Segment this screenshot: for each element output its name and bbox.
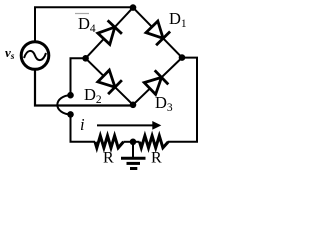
wire branch left-bottom (86, 58, 133, 105)
svg-text:D3: D3 (155, 93, 173, 114)
current arrow i (97, 121, 161, 130)
junction bridge right (179, 54, 186, 61)
junction hop bottom (67, 111, 74, 118)
junction bridge left (82, 55, 89, 62)
junction bridge bottom (130, 102, 137, 109)
wire hop over source wire (57, 95, 70, 114)
wire right resistor to right corner (168, 58, 197, 142)
wire left resistor to center node (124, 141, 140, 143)
svg-text:D4: D4 (78, 14, 96, 35)
ground (121, 142, 146, 169)
resistor R left (95, 136, 124, 148)
svg-text:i: i (80, 115, 85, 134)
svg-text:R: R (103, 150, 114, 167)
wire left corner to hop (71, 58, 86, 95)
svg-text:R: R (151, 150, 162, 167)
diode D4 (98, 20, 122, 44)
diode D3 (144, 70, 168, 94)
junction hop top (67, 92, 74, 99)
resistor R right (140, 136, 169, 148)
ac source vs (21, 42, 49, 70)
junction bridge top (130, 4, 137, 11)
svg-text:D2: D2 (84, 85, 102, 106)
wire branch left-top (86, 8, 133, 59)
svg-text:vs: vs (5, 45, 15, 62)
junction resistor center / ground node (130, 139, 137, 146)
wire branch top-right (133, 8, 182, 58)
wire vs top to bridge top (35, 7, 133, 42)
wire vs bottom to bridge bottom (35, 69, 133, 105)
svg-text:D1: D1 (169, 9, 187, 30)
diode D2 (98, 70, 122, 94)
wire hop to left resistor (71, 114, 96, 141)
stray mark above D4 (75, 13, 89, 15)
diode D1 (146, 21, 170, 45)
wire branch bottom-right (133, 58, 182, 105)
